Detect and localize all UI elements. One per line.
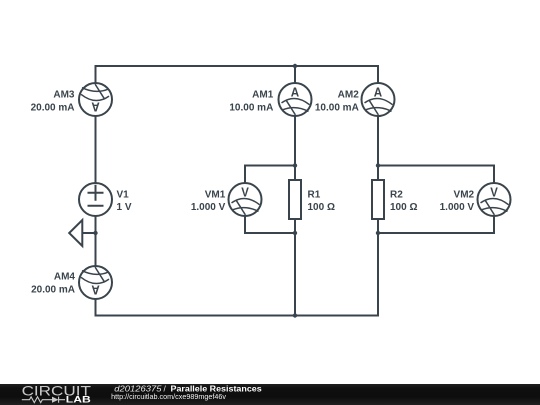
svg-text:A: A <box>291 84 300 99</box>
svg-text:V: V <box>490 184 498 199</box>
svg-text:AM1: AM1 <box>252 90 274 101</box>
svg-text:V1: V1 <box>117 190 130 201</box>
svg-text:AM4: AM4 <box>54 272 76 283</box>
svg-text:10.00 mA: 10.00 mA <box>229 103 273 114</box>
svg-text:100 Ω: 100 Ω <box>308 202 335 213</box>
svg-text:http://circuitlab.com/cxe989mg: http://circuitlab.com/cxe989mgef46v <box>111 392 226 401</box>
svg-text:20.00 mA: 20.00 mA <box>31 103 75 114</box>
svg-text:100 Ω: 100 Ω <box>390 202 417 213</box>
svg-text:1.000 V: 1.000 V <box>440 202 475 213</box>
svg-text:R1: R1 <box>308 190 321 201</box>
svg-text:1 V: 1 V <box>117 202 132 213</box>
svg-text:V: V <box>241 184 249 199</box>
svg-text:10.00 mA: 10.00 mA <box>315 103 359 114</box>
svg-text:A: A <box>91 283 100 298</box>
svg-text:1.000 V: 1.000 V <box>191 202 226 213</box>
svg-text:AM2: AM2 <box>338 90 360 101</box>
svg-text:VM1: VM1 <box>205 190 226 201</box>
svg-text:A: A <box>374 84 383 99</box>
svg-text:A: A <box>91 100 100 115</box>
svg-text:R2: R2 <box>390 190 403 201</box>
svg-text:AM3: AM3 <box>53 90 75 101</box>
svg-text:20.00 mA: 20.00 mA <box>31 285 75 296</box>
svg-text:VM2: VM2 <box>454 190 475 201</box>
svg-text:LAB: LAB <box>66 395 91 405</box>
